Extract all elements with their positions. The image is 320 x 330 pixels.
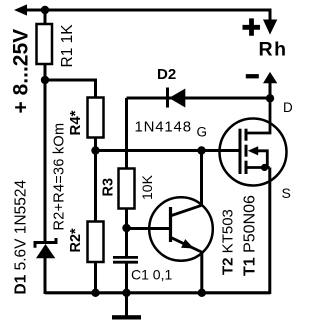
node dot source-body junction (261, 164, 268, 171)
svg-text:Rh: Rh (259, 39, 288, 61)
wire top rail corner down to load arrow (269, 9, 272, 22)
node dot V+ at R1 top (41, 6, 49, 14)
transistor T2 body circle (149, 197, 213, 261)
wire D1 anode to bottom rail (44, 258, 47, 294)
svg-text:T2 KT503: T2 KT503 (220, 209, 237, 275)
wire drain node down into MOSFET (247, 98, 271, 133)
zener diode D1 cathode bar (35, 238, 56, 248)
svg-text:T1 P50N06: T1 P50N06 (242, 195, 259, 276)
zener diode D1 triangle (36, 244, 55, 258)
resistor R1 (37, 24, 53, 64)
MOSFET T1 source lead (247, 166, 270, 169)
arrow supply input pointing left (14, 4, 27, 15)
svg-text:C1 0,1: C1 0,1 (131, 267, 172, 283)
MOSFET T1 body lead (258, 151, 268, 168)
wire gate line from node C to MOSFET gate (96, 149, 240, 152)
label plus sign (243, 18, 261, 35)
arrow from load Rh minus side pointing up (263, 72, 277, 83)
svg-text:10K: 10K (139, 174, 155, 200)
resistor R4 (88, 98, 104, 138)
node dot R2 at bottom rail (91, 289, 99, 297)
arrow to load Rh plus side pointing down (263, 20, 277, 35)
node dot drain (266, 94, 274, 102)
node dot gate G (197, 146, 205, 154)
node dot B (R1 / R4 / D1) (41, 76, 49, 84)
svg-text:G: G (197, 125, 208, 140)
svg-text:S: S (282, 185, 291, 201)
transistor T2 collector slant (172, 205, 203, 215)
wire D2 anode line (127, 97, 271, 100)
wire node E to T2 base (127, 227, 170, 230)
ground stub (125, 294, 128, 316)
transistor T2 base bar (169, 207, 172, 242)
transistor T2 emitter arrow (181, 239, 194, 248)
wire node B to R4 top (45, 80, 96, 99)
MOSFET T1 gate bar (239, 129, 242, 174)
wire source down to bottom rail (268, 168, 271, 295)
MOSFET T1 channel source segment (245, 161, 248, 174)
svg-text:D2: D2 (157, 66, 176, 83)
label minus sign (246, 74, 259, 78)
wire R2 bottom to bottom rail (94, 262, 97, 294)
svg-text:D: D (283, 100, 293, 115)
transistor T2 emitter slant (172, 238, 203, 253)
wire R4 bottom to node C (94, 138, 97, 153)
wire top V+ rail (24, 9, 270, 12)
wire bottom ground rail (45, 291, 270, 294)
svg-text:+ 8...25V: + 8...25V (10, 29, 33, 114)
svg-text:R4*: R4* (67, 110, 84, 135)
svg-text:R2*: R2* (68, 228, 84, 253)
svg-text:R2+R4=36 kOm: R2+R4=36 kOm (52, 123, 68, 231)
diode D2 cathode bar (166, 88, 169, 108)
node dot C (R4 / R2 / gate wire) (91, 146, 99, 154)
node dot C1 at bottom rail (122, 289, 130, 297)
MOSFET T1 channel body segment (245, 145, 248, 157)
MOSFET T1 body arrow (248, 146, 258, 155)
capacitor C1 top plate (113, 256, 138, 259)
wire R1 bottom to node B (44, 64, 47, 241)
wire D2 branch down to R3 (125, 98, 128, 170)
ground bar (112, 315, 141, 319)
wire T2 emitter down to bottom rail (200, 253, 203, 295)
svg-text:D1 5.6V 1N5524: D1 5.6V 1N5524 (13, 179, 30, 294)
resistor R3 (119, 169, 135, 209)
wire C1 bottom to bottom rail (125, 264, 128, 295)
svg-text:R1 1K: R1 1K (59, 24, 76, 68)
MOSFET T1 body circle (220, 119, 287, 186)
svg-text:1N4148: 1N4148 (135, 119, 192, 136)
wire T2 collector up to gate node (200, 151, 203, 206)
node dot emitter at bottom rail (198, 289, 206, 297)
wire load arrow stem to drain node (269, 83, 272, 98)
wire R3 bottom to node E (125, 209, 128, 231)
diode D2 triangle (169, 89, 185, 108)
wire node C down to R2 (94, 151, 97, 224)
svg-text:R3: R3 (101, 178, 117, 197)
wire V+ rail down to R1 (44, 10, 47, 26)
resistor R2 (88, 222, 104, 263)
node dot E (R3 / C1 / T2 base) (122, 224, 130, 232)
capacitor C1 bottom plate (113, 261, 138, 264)
MOSFET T1 channel drain segment (245, 129, 248, 141)
wire node E down to C1 (125, 228, 128, 257)
